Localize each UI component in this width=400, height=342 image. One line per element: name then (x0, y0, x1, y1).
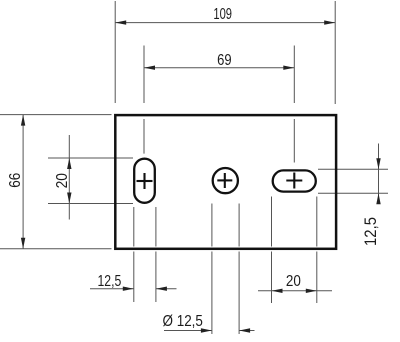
svg-text:12,5: 12,5 (362, 217, 380, 246)
svg-text:Ø 12,5: Ø 12,5 (162, 313, 202, 330)
svg-text:12,5: 12,5 (97, 271, 121, 289)
svg-text:109: 109 (213, 5, 232, 22)
svg-text:69: 69 (217, 52, 232, 69)
svg-text:66: 66 (7, 173, 24, 188)
svg-text:20: 20 (53, 173, 71, 188)
svg-text:20: 20 (286, 273, 301, 290)
